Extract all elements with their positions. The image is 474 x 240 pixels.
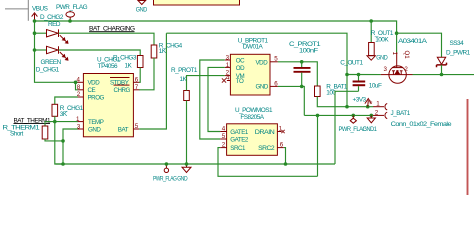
ground symbol top GND: [138, 0, 146, 5]
svg-text:U_POWMOS1: U_POWMOS1: [235, 107, 273, 114]
IC U_POWMOS1 FS8205A body: [227, 124, 278, 156]
resistor R_CHG1: [52, 104, 58, 116]
junction +3V3 row1: [366, 105, 370, 109]
svg-text:GND: GND: [177, 175, 188, 182]
wire battery minus row2: [304, 114, 373, 116]
wire W_BAT top: [166, 33, 347, 107]
resistor R_CHG4: [151, 45, 157, 58]
svg-text:BAT: BAT: [118, 127, 129, 134]
wire R_CHG4 to CHRG: [139, 58, 154, 90]
ground symbol R_OUT1 GND: [367, 56, 375, 60]
svg-text:1: 1: [376, 100, 380, 107]
svg-text:TO: TO: [236, 78, 244, 85]
junction R_OUT1 on VBUS rail: [369, 19, 373, 23]
svg-text:Q1: Q1: [403, 51, 410, 60]
svg-text:OD: OD: [236, 65, 245, 72]
svg-text:SS34: SS34: [450, 40, 465, 47]
svg-text:Short: Short: [10, 131, 23, 138]
svg-text:7: 7: [135, 84, 139, 91]
ground symbol GND bottom: [182, 164, 191, 173]
pin 5 VDD: [270, 61, 278, 63]
power flag PWR_FLAG right: [350, 115, 356, 123]
wire green LED to R_CHG3: [59, 50, 141, 56]
svg-text:1: 1: [226, 62, 230, 69]
IC U_CHG1 TP4056 body: [83, 74, 133, 137]
pin 1 OD: [225, 66, 231, 68]
svg-text:RED: RED: [48, 21, 61, 28]
pin 8 CE: [78, 89, 84, 91]
wire TEMP row: [45, 121, 78, 123]
wire FET drain row right: [413, 74, 474, 76]
svg-text:5: 5: [135, 123, 139, 130]
wire VDD row to R_BAT1: [278, 62, 317, 86]
wire SRC2 to ground rail: [284, 148, 286, 164]
IC U_BPROT1 DW01A body: [230, 54, 270, 95]
svg-text:+3V3: +3V3: [353, 97, 367, 104]
wire red LED anode: [35, 32, 47, 34]
wire rail right end up to C_OUT1: [335, 91, 359, 164]
wire OD to GATE1: [208, 67, 225, 131]
wire R_CHG1 to TEMP row and down to ground rail: [55, 116, 63, 164]
wire R_THERM1 bottom: [45, 139, 63, 141]
svg-text:D_CHG2: D_CHG2: [40, 14, 64, 21]
svg-text:5: 5: [274, 56, 278, 63]
LED D_CHG1 GREEN: [47, 46, 68, 60]
junction red LED row: [33, 31, 37, 35]
junction GND rail left: [61, 162, 65, 166]
svg-text:1: 1: [391, 52, 398, 56]
svg-text:TEMP: TEMP: [88, 119, 104, 126]
svg-text:A03401A: A03401A: [398, 38, 428, 45]
LED D_CHG2 RED: [47, 29, 68, 43]
junction VBUS arrow: [33, 19, 37, 23]
svg-text:GATE1: GATE1: [230, 129, 249, 136]
pin 3 GND: [78, 128, 84, 130]
pin 7 CHRG: [133, 89, 139, 91]
pin 2 VM: [225, 75, 231, 77]
svg-text:2: 2: [375, 110, 379, 117]
component edge right side: [467, 99, 469, 195]
resistor R_BAT1: [315, 86, 321, 97]
junction green LED row: [33, 48, 37, 52]
resistor R_OUT1: [370, 21, 372, 43]
pin 4 GATE1: [220, 131, 226, 133]
junction VBUS corner gate: [395, 31, 399, 35]
junction C_OUT1 top: [357, 73, 361, 77]
junction R_THERM1 GND: [61, 139, 65, 143]
sheet origin crosshair: [5, 0, 29, 21]
pin 6 STDBY: [133, 81, 139, 83]
svg-text:GND: GND: [88, 127, 101, 134]
svg-text:VDD: VDD: [88, 80, 101, 87]
svg-text:Conn_01x02_Female: Conn_01x02_Female: [391, 121, 452, 128]
wire BAT pin to W_BAT: [139, 33, 166, 129]
pin 6 GND: [270, 85, 278, 87]
component box top edge: [154, 0, 240, 5]
junction VDD: [74, 81, 78, 85]
junction row2 to sources: [316, 114, 320, 118]
resistor R_CHG3: [137, 56, 143, 68]
pin 4 VDD: [78, 81, 84, 83]
wire row2 to source U line: [317, 115, 319, 176]
svg-text:OC: OC: [236, 58, 245, 65]
wire OC to GATE2: [200, 60, 225, 139]
svg-text:CE: CE: [88, 87, 96, 94]
wire GND row DW01A: [278, 86, 304, 115]
svg-text:GREEN: GREEN: [41, 59, 62, 66]
wire GND pin down: [63, 129, 78, 164]
resistor R_PROT1: [184, 91, 190, 101]
power symbol VBUS arrow: [32, 13, 38, 21]
svg-text:R_PROT1: R_PROT1: [171, 67, 198, 74]
svg-text:D_PWR1: D_PWR1: [446, 49, 471, 56]
wire VM to R_PROT1: [187, 76, 225, 91]
svg-text:FS8205A: FS8205A: [240, 114, 264, 121]
svg-text:DW01A: DW01A: [243, 43, 264, 50]
svg-text:PWR_FLAG: PWR_FLAG: [56, 4, 88, 11]
wire green LED anode: [35, 49, 47, 51]
svg-text:5: 5: [222, 133, 226, 140]
pin 3 OC: [225, 59, 231, 61]
svg-text:VDD: VDD: [256, 59, 269, 66]
wire ground rail: [56, 163, 336, 165]
svg-text:GATE2: GATE2: [230, 136, 249, 143]
svg-text:10uF: 10uF: [369, 83, 382, 90]
svg-text:GND: GND: [256, 84, 269, 91]
svg-text:1: 1: [279, 126, 283, 133]
connector J_BAT1 pin 1: [373, 104, 387, 110]
resistor R_THERM1: [44, 122, 46, 126]
pin 5 BAT: [133, 128, 139, 130]
svg-text:PWR_FLAG: PWR_FLAG: [153, 175, 177, 182]
junction PWR_FLAG row2: [352, 114, 356, 118]
junction W_BAT row1: [345, 105, 349, 109]
junction C_PROT1 top: [300, 60, 304, 64]
pin 1 DRAIN with no-connect X: [277, 131, 281, 133]
wire VBUS rail: [35, 21, 397, 33]
svg-text:3: 3: [226, 54, 230, 61]
wire W_BAT to FET row: [347, 74, 381, 76]
wire VDD CE tie: [76, 82, 78, 90]
junction PWR_FLAG: [68, 19, 72, 23]
junction R_CHG1 TEMP: [53, 120, 57, 124]
svg-text:6: 6: [280, 142, 284, 149]
svg-text:4: 4: [226, 74, 230, 81]
connector J_BAT1 pin 2: [373, 112, 387, 118]
svg-text:SRC1: SRC1: [230, 145, 246, 152]
wire R_BAT1 to battery row: [317, 97, 373, 107]
svg-text:D_CHG1: D_CHG1: [36, 67, 60, 74]
svg-text:GND: GND: [136, 6, 148, 13]
power flag PWR_FLAG bottom: [164, 164, 168, 173]
wire VBUS to diode: [397, 33, 442, 57]
svg-text:GND: GND: [376, 55, 388, 62]
svg-text:6: 6: [135, 76, 139, 83]
svg-text:SRC2: SRC2: [258, 145, 275, 152]
junction diode output: [440, 73, 444, 77]
pin 2 SRC1: [220, 147, 226, 149]
pin 6 SRC2: [277, 147, 283, 149]
wire SRC1 U route: [218, 148, 318, 177]
svg-text:J_BAT1: J_BAT1: [391, 110, 411, 117]
pin 5 GATE2: [220, 138, 226, 140]
svg-text:2: 2: [222, 142, 226, 149]
wire BAT_CHARGING: [59, 33, 154, 45]
junction C_PROT1 bottom: [300, 85, 304, 89]
ground symbol GND1: [367, 115, 375, 122]
junction W_BAT FET row: [345, 73, 349, 77]
junction SRC2 rail: [284, 162, 288, 166]
svg-text:TP4056: TP4056: [98, 63, 118, 70]
wire R_PROT1 to ground rail: [186, 101, 188, 165]
junction GND1 row2: [370, 114, 374, 118]
pin 1 TEMP: [78, 121, 84, 123]
pin 4 TO with no-connect X: [227, 80, 231, 82]
wire R_CHG3 to STDBY: [139, 68, 140, 83]
svg-text:100K: 100K: [375, 36, 389, 43]
pin 2 PROG: [78, 96, 84, 98]
svg-text:DRAIN: DRAIN: [255, 129, 274, 136]
svg-text:4: 4: [222, 126, 226, 133]
svg-text:100nF: 100nF: [299, 47, 318, 54]
svg-text:6: 6: [274, 80, 278, 87]
svg-text:C_OUT1: C_OUT1: [340, 59, 363, 66]
svg-text:3: 3: [384, 66, 388, 73]
svg-text:VBUS: VBUS: [32, 5, 48, 12]
svg-text:2: 2: [404, 66, 408, 73]
svg-text:CHRG: CHRG: [114, 87, 131, 94]
wire PROG to R_CHG1: [55, 97, 78, 104]
svg-text:PROG: PROG: [88, 94, 105, 101]
svg-text:GND1: GND1: [363, 126, 378, 133]
wire gate drop: [396, 33, 398, 52]
wire left LED rail: [35, 21, 78, 82]
